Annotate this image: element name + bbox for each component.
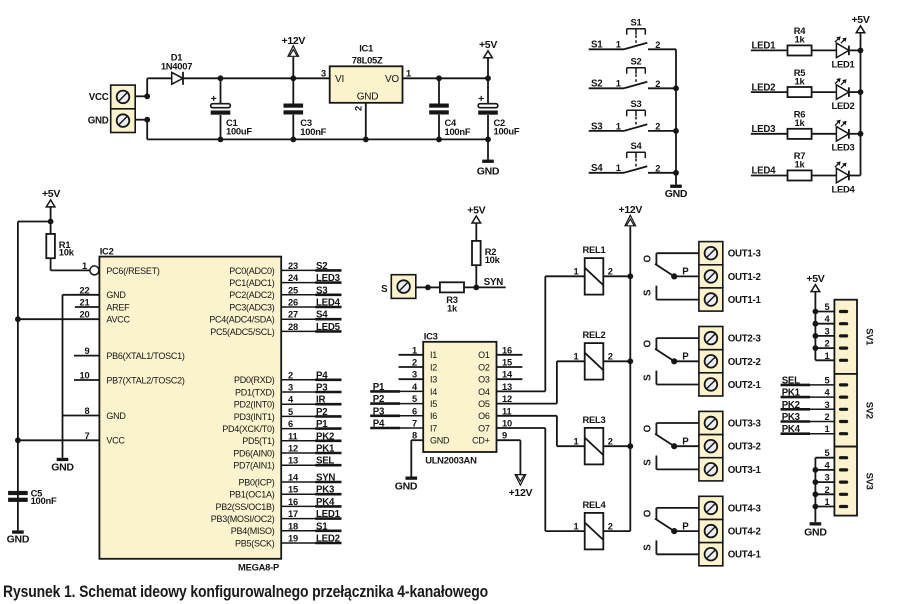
svg-text:100uF: 100uF (494, 126, 520, 137)
svg-text:PD6(AIN0): PD6(AIN0) (233, 448, 275, 458)
svg-text:5: 5 (825, 302, 830, 312)
svg-text:25: 25 (288, 285, 298, 295)
svg-text:OUT1-3: OUT1-3 (728, 249, 762, 260)
svg-text:1N4007: 1N4007 (161, 61, 192, 72)
svg-text:+12V: +12V (618, 204, 642, 216)
svg-text:PC4(ADC4/SDA): PC4(ADC4/SDA) (209, 315, 275, 325)
svg-text:P3: P3 (316, 383, 328, 394)
svg-text:2: 2 (608, 522, 613, 532)
svg-text:SEL: SEL (782, 375, 800, 386)
svg-text:1: 1 (406, 68, 411, 78)
svg-text:3: 3 (825, 473, 830, 483)
svg-text:I6: I6 (430, 411, 437, 421)
svg-text:16: 16 (502, 345, 512, 355)
svg-text:I7: I7 (430, 423, 437, 433)
svg-text:O2: O2 (478, 362, 490, 372)
svg-text:23: 23 (288, 261, 298, 271)
svg-text:LED2: LED2 (316, 534, 340, 545)
svg-text:PK2: PK2 (782, 400, 800, 411)
svg-text:3: 3 (412, 370, 417, 380)
svg-text:+12V: +12V (509, 487, 533, 499)
svg-text:OUT1-1: OUT1-1 (728, 295, 762, 306)
svg-text:3: 3 (825, 400, 830, 410)
svg-text:PD7(AIN1): PD7(AIN1) (233, 461, 275, 471)
svg-text:2: 2 (412, 358, 417, 368)
svg-text:PK1: PK1 (782, 388, 801, 399)
svg-text:14: 14 (288, 473, 299, 483)
svg-text:PC2(ADC2): PC2(ADC2) (229, 290, 275, 300)
svg-text:2: 2 (825, 485, 830, 495)
svg-text:ULN2003AN: ULN2003AN (425, 455, 477, 466)
svg-text:S2: S2 (316, 261, 327, 272)
svg-text:PK4: PK4 (782, 424, 801, 435)
svg-text:S: S (643, 459, 654, 466)
svg-text:VCC: VCC (89, 92, 109, 103)
svg-text:OUT3-1: OUT3-1 (728, 465, 762, 476)
svg-text:LED5: LED5 (316, 322, 341, 333)
svg-text:7: 7 (85, 431, 90, 441)
svg-text:PD1(TXD): PD1(TXD) (235, 387, 275, 397)
svg-text:+: + (211, 93, 217, 105)
svg-text:1: 1 (412, 345, 417, 355)
svg-text:OUT2-1: OUT2-1 (728, 380, 762, 391)
svg-text:LED4: LED4 (832, 183, 856, 194)
svg-text:PB7(XTAL2/TOSC2): PB7(XTAL2/TOSC2) (106, 375, 184, 385)
svg-text:17: 17 (288, 509, 298, 519)
svg-text:1k: 1k (447, 302, 458, 313)
svg-text:REL4: REL4 (583, 499, 607, 510)
svg-text:P4: P4 (316, 370, 328, 381)
svg-text:1: 1 (616, 40, 621, 50)
svg-text:PD5(T1): PD5(T1) (242, 436, 275, 446)
svg-text:S2: S2 (631, 55, 642, 66)
svg-text:CD+: CD+ (472, 436, 490, 446)
svg-text:2: 2 (825, 412, 830, 422)
svg-text:+: + (478, 93, 484, 105)
svg-text:I5: I5 (430, 399, 437, 409)
svg-text:14: 14 (502, 370, 513, 380)
svg-text:GND: GND (51, 461, 74, 473)
svg-text:2: 2 (354, 106, 364, 111)
svg-text:LED4: LED4 (316, 298, 341, 309)
svg-text:LED2: LED2 (832, 100, 855, 111)
svg-text:S: S (643, 544, 654, 551)
svg-text:1: 1 (574, 352, 579, 362)
svg-text:12: 12 (502, 394, 512, 404)
svg-text:O4: O4 (478, 387, 490, 397)
svg-text:REL2: REL2 (583, 329, 606, 340)
svg-text:S3: S3 (631, 98, 642, 109)
svg-text:2: 2 (655, 40, 660, 50)
svg-text:11: 11 (288, 431, 297, 441)
svg-text:+5V: +5V (479, 39, 497, 51)
svg-text:5: 5 (825, 448, 830, 458)
svg-text:1k: 1k (795, 34, 806, 45)
svg-text:PC5(ADC5/SCL): PC5(ADC5/SCL) (210, 327, 275, 337)
svg-text:SV1: SV1 (865, 328, 876, 345)
svg-text:20: 20 (80, 310, 90, 320)
svg-text:PC0(ADC0): PC0(ADC0) (229, 266, 275, 276)
svg-text:PC6(/RESET): PC6(/RESET) (106, 266, 160, 276)
svg-text:MEGA8-P: MEGA8-P (238, 562, 279, 573)
svg-text:3: 3 (288, 383, 293, 393)
svg-text:AVCC: AVCC (106, 315, 130, 325)
svg-text:8: 8 (85, 406, 90, 416)
svg-text:1: 1 (574, 522, 579, 532)
svg-text:1: 1 (82, 261, 87, 271)
svg-text:24: 24 (288, 273, 299, 283)
svg-text:2: 2 (608, 437, 613, 447)
svg-text:PD3(INT1): PD3(INT1) (234, 412, 275, 422)
svg-text:PB0(ICP): PB0(ICP) (238, 477, 274, 487)
svg-text:PB6(XTAL1/TOSC1): PB6(XTAL1/TOSC1) (106, 351, 184, 361)
svg-text:LED1: LED1 (316, 509, 341, 520)
svg-text:1: 1 (616, 121, 621, 131)
svg-text:18: 18 (288, 521, 298, 531)
svg-text:SV3: SV3 (865, 473, 876, 490)
svg-text:PB5(SCK): PB5(SCK) (235, 538, 275, 548)
svg-text:SYN: SYN (316, 473, 335, 484)
svg-text:IC2: IC2 (100, 245, 114, 256)
svg-text:8: 8 (412, 431, 417, 441)
svg-text:1: 1 (574, 437, 579, 447)
svg-text:2: 2 (825, 339, 830, 349)
svg-text:PK3: PK3 (316, 485, 335, 496)
svg-text:11: 11 (502, 406, 511, 416)
svg-text:OUT3-3: OUT3-3 (728, 419, 762, 430)
svg-text:PK3: PK3 (782, 412, 801, 423)
svg-text:7: 7 (412, 419, 417, 429)
svg-text:S: S (643, 374, 654, 381)
svg-text:P1: P1 (373, 382, 385, 393)
svg-text:S4: S4 (631, 140, 643, 151)
svg-text:22: 22 (80, 285, 90, 295)
svg-text:10: 10 (80, 371, 90, 381)
svg-text:2: 2 (608, 352, 613, 362)
svg-text:REL3: REL3 (583, 414, 606, 425)
svg-text:PB3(MOSI/OC2): PB3(MOSI/OC2) (211, 514, 275, 524)
svg-text:+12V: +12V (281, 35, 305, 47)
svg-text:3: 3 (825, 326, 830, 336)
svg-text:I1: I1 (430, 350, 437, 360)
svg-text:IC3: IC3 (424, 331, 438, 342)
svg-text:S1: S1 (631, 16, 642, 27)
svg-text:Rysunek 1. Schemat ideowy konf: Rysunek 1. Schemat ideowy konfigurowalne… (3, 582, 488, 601)
svg-text:OUT4-3: OUT4-3 (728, 503, 762, 514)
svg-text:3: 3 (321, 68, 326, 78)
svg-text:PD0(RXD): PD0(RXD) (234, 375, 275, 385)
svg-text:O7: O7 (478, 423, 490, 433)
svg-text:5: 5 (412, 394, 417, 404)
svg-text:1k: 1k (795, 117, 806, 128)
svg-text:S: S (643, 289, 654, 296)
svg-text:10: 10 (502, 419, 512, 429)
svg-text:P: P (682, 437, 689, 448)
svg-text:1: 1 (574, 267, 579, 277)
svg-text:GND: GND (430, 436, 450, 446)
svg-text:100uF: 100uF (226, 126, 252, 137)
svg-text:P: P (682, 267, 689, 278)
svg-text:PB1(OC1A): PB1(OC1A) (229, 490, 275, 500)
svg-text:GND: GND (357, 91, 379, 102)
svg-text:PK4: PK4 (316, 497, 335, 508)
svg-text:6: 6 (288, 419, 293, 429)
svg-text:S1: S1 (316, 521, 328, 532)
svg-text:+5V: +5V (42, 188, 60, 200)
svg-text:10k: 10k (485, 254, 501, 265)
svg-text:1: 1 (616, 163, 621, 173)
svg-text:5: 5 (825, 375, 830, 385)
svg-text:IR: IR (316, 395, 325, 406)
svg-text:SV2: SV2 (865, 402, 876, 419)
svg-text:P1: P1 (316, 419, 328, 430)
svg-text:9: 9 (85, 346, 90, 356)
svg-text:5: 5 (288, 407, 293, 417)
svg-text:OUT2-3: OUT2-3 (728, 334, 762, 345)
svg-text:VCC: VCC (106, 436, 125, 446)
svg-text:P3: P3 (373, 406, 385, 417)
svg-text:12: 12 (288, 444, 298, 454)
svg-text:2: 2 (655, 164, 660, 174)
svg-text:LED3: LED3 (832, 142, 855, 153)
svg-text:28: 28 (288, 322, 298, 332)
svg-text:I4: I4 (430, 387, 437, 397)
svg-text:GND: GND (106, 290, 126, 300)
svg-text:O1: O1 (478, 350, 490, 360)
svg-text:PB4(MISO): PB4(MISO) (231, 526, 275, 536)
svg-text:1k: 1k (795, 159, 806, 170)
svg-text:6: 6 (412, 406, 417, 416)
svg-text:15: 15 (288, 485, 298, 495)
svg-text:+5V: +5V (851, 14, 869, 26)
svg-text:GND: GND (7, 534, 30, 546)
svg-text:100nF: 100nF (300, 126, 326, 137)
svg-text:GND: GND (804, 526, 827, 538)
svg-text:13: 13 (502, 382, 512, 392)
svg-text:LED3: LED3 (316, 273, 341, 284)
svg-text:O6: O6 (478, 411, 490, 421)
svg-text:PD4(XCK/T0): PD4(XCK/T0) (222, 424, 275, 434)
svg-text:IC1: IC1 (359, 43, 373, 54)
svg-text:P2: P2 (316, 407, 327, 418)
svg-text:GND: GND (395, 480, 418, 492)
svg-text:GND: GND (665, 188, 688, 200)
svg-text:PD2(INT0): PD2(INT0) (234, 400, 275, 410)
svg-text:GND: GND (88, 116, 109, 127)
svg-text:27: 27 (288, 310, 298, 320)
svg-text:16: 16 (288, 497, 298, 507)
svg-text:100nF: 100nF (31, 495, 57, 506)
svg-text:O: O (643, 509, 654, 517)
svg-text:OUT3-2: OUT3-2 (728, 442, 761, 453)
svg-text:P2: P2 (373, 394, 384, 405)
svg-text:O: O (643, 424, 654, 432)
svg-text:21: 21 (80, 298, 90, 308)
svg-text:PK1: PK1 (316, 444, 335, 455)
svg-text:REL1: REL1 (583, 244, 606, 255)
svg-text:10k: 10k (59, 247, 75, 258)
svg-text:VO: VO (385, 74, 399, 85)
svg-text:1: 1 (825, 351, 830, 361)
svg-text:+5V: +5V (806, 273, 824, 285)
svg-text:S: S (381, 284, 388, 295)
svg-text:P: P (682, 521, 689, 532)
svg-text:OUT2-2: OUT2-2 (728, 357, 761, 368)
svg-text:AREF: AREF (106, 302, 130, 312)
svg-text:2: 2 (655, 79, 660, 89)
svg-text:S3: S3 (316, 285, 328, 296)
svg-text:P: P (682, 352, 689, 363)
svg-text:1k: 1k (795, 75, 806, 86)
svg-text:O3: O3 (478, 375, 490, 385)
svg-text:2: 2 (608, 267, 613, 277)
svg-text:13: 13 (288, 456, 298, 466)
svg-text:PK2: PK2 (316, 431, 334, 442)
svg-text:9: 9 (502, 431, 507, 441)
svg-text:PC3(ADC3): PC3(ADC3) (229, 302, 275, 312)
svg-text:O5: O5 (478, 399, 490, 409)
svg-text:SYN: SYN (484, 277, 503, 288)
svg-text:O: O (643, 255, 654, 263)
svg-text:S4: S4 (316, 310, 328, 321)
svg-text:100nF: 100nF (445, 126, 471, 137)
svg-text:I3: I3 (430, 375, 437, 385)
svg-text:1: 1 (825, 424, 830, 434)
svg-text:P4: P4 (373, 419, 385, 430)
svg-text:15: 15 (502, 358, 512, 368)
svg-text:SEL: SEL (316, 456, 334, 467)
svg-text:2: 2 (655, 122, 660, 132)
svg-text:I2: I2 (430, 362, 437, 372)
svg-text:1: 1 (616, 79, 621, 89)
svg-text:PB2(SS/OC1B): PB2(SS/OC1B) (215, 502, 274, 512)
svg-text:26: 26 (288, 298, 298, 308)
svg-text:PC1(ADC1): PC1(ADC1) (229, 278, 275, 288)
svg-text:VI: VI (335, 74, 344, 85)
svg-text:2: 2 (288, 370, 293, 380)
svg-text:78L05Z: 78L05Z (352, 54, 383, 65)
svg-text:OUT4-2: OUT4-2 (728, 527, 761, 538)
svg-text:19: 19 (288, 534, 298, 544)
svg-text:GND: GND (106, 411, 126, 421)
svg-text:+5V: +5V (467, 204, 485, 216)
svg-text:O: O (643, 339, 654, 347)
svg-text:LED1: LED1 (832, 58, 855, 69)
svg-text:GND: GND (477, 165, 500, 177)
svg-text:OUT1-2: OUT1-2 (728, 272, 761, 283)
svg-text:1: 1 (825, 497, 830, 507)
svg-text:OUT4-1: OUT4-1 (728, 550, 762, 561)
